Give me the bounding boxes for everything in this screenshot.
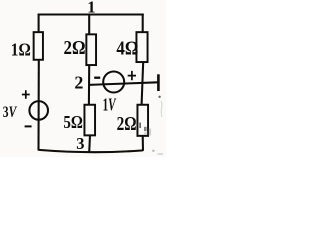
value label 1Ω — [11, 40, 31, 60]
resistor 5ohm body — [84, 105, 95, 136]
svg-text:2: 2 — [74, 73, 83, 93]
voltage source 1V circle — [103, 72, 124, 93]
wire bottom (node 3 rail) — [39, 150, 143, 152]
value label 4Ω — [116, 37, 138, 59]
resistor 2ohm (top middle) body — [86, 34, 96, 65]
wire middle branch upper — [88, 14, 90, 35]
terminal bar right — [157, 74, 160, 91]
scan faint streak right edge — [160, 101, 163, 117]
wire right branch lower — [142, 135, 144, 150]
node 1 label — [87, 0, 95, 17]
svg-text:2Ω: 2Ω — [64, 37, 86, 59]
wire top (node 1 rail) — [38, 13, 144, 15]
node 3 label — [76, 134, 84, 153]
svg-text:5Ω: 5Ω — [63, 112, 83, 132]
wire right branch upper — [142, 14, 144, 33]
resistor 1ohm body — [34, 32, 43, 60]
svg-text:1V: 1V — [103, 94, 117, 114]
svg-text:1: 1 — [87, 0, 95, 17]
svg-text:3V: 3V — [3, 104, 17, 121]
value label 1V — [103, 94, 117, 114]
resistor 2ohm (bottom right) body — [137, 105, 148, 136]
wire right branch mid — [142, 62, 144, 105]
svg-text:4Ω: 4Ω — [116, 37, 138, 59]
value label 2Ω (top middle) — [64, 37, 86, 59]
wire middle horizontal (node 2 to terminal) — [89, 82, 158, 85]
node 2 label — [74, 73, 83, 93]
svg-text:1Ω: 1Ω — [11, 40, 31, 60]
polarity plus of 1V — [128, 71, 136, 80]
scan tick below bottom wire right — [152, 150, 154, 152]
value label 3V — [3, 104, 17, 121]
wire middle branch mid (node 2 stem) — [88, 65, 90, 105]
polarity minus of 3V — [25, 125, 32, 127]
wire left branch lower (through 3V source leads) — [37, 60, 39, 151]
resistor 4ohm body — [136, 32, 147, 62]
value label 5Ω — [63, 112, 83, 132]
voltage source 3V circle — [29, 101, 48, 120]
wire middle branch lower (node 3 stem) — [88, 135, 91, 153]
scan fuzz bottom edge right — [158, 153, 164, 155]
wire left branch upper — [38, 14, 40, 33]
polarity plus of 3V — [22, 90, 30, 99]
value label 2Ω (bottom right) — [117, 113, 137, 135]
scan dot right edge — [158, 96, 160, 98]
polarity minus of 1V — [94, 77, 100, 79]
svg-text:3: 3 — [76, 134, 84, 153]
svg-text:2Ω: 2Ω — [117, 113, 137, 135]
scan smudge near bottom-right resistor — [139, 123, 151, 136]
